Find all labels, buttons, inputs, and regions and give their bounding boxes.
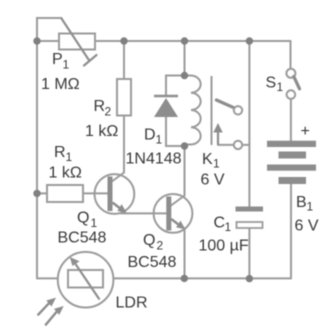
resistor R2	[117, 79, 131, 116]
label Q1	[77, 210, 98, 231]
potentiometer P1	[59, 19, 97, 66]
transistor Q1	[95, 174, 135, 214]
label R2	[94, 98, 112, 119]
light arrow 1	[38, 298, 56, 316]
svg-text:Q: Q	[143, 232, 155, 249]
node D1/coil top	[181, 72, 188, 79]
light arrow 2	[45, 306, 64, 325]
svg-text:1 kΩ: 1 kΩ	[49, 165, 82, 182]
transistor Q2	[154, 194, 193, 233]
label Q2	[143, 232, 164, 253]
switch S1	[286, 69, 299, 99]
wire R2 bottom to Q1 collector	[113, 116, 125, 182]
node R1 rail	[33, 190, 40, 197]
diode D1	[154, 96, 178, 117]
label K1	[202, 151, 220, 171]
relay K1 coil	[185, 76, 201, 145]
svg-text:C: C	[214, 215, 226, 232]
wire C1 column bottom	[248, 228, 250, 278]
svg-text:1: 1	[225, 220, 232, 234]
wire S1 top	[290, 41, 292, 69]
relay K1 lever	[216, 100, 233, 108]
svg-text:P: P	[52, 51, 63, 68]
label D1	[144, 127, 163, 147]
label S1	[266, 75, 284, 95]
svg-text:1 kΩ: 1 kΩ	[85, 123, 118, 140]
svg-text:LDR: LDR	[116, 295, 148, 312]
relay K1 core	[211, 76, 213, 145]
battery B1	[267, 141, 316, 184]
svg-text:1 MΩ: 1 MΩ	[41, 76, 80, 93]
wire R2 top	[123, 41, 125, 79]
relay K1 actuation arrow	[213, 123, 222, 145]
svg-text:2: 2	[157, 239, 164, 253]
wire top rail	[37, 40, 291, 42]
svg-text:S: S	[266, 75, 277, 92]
relay K1 top contact	[234, 106, 242, 114]
svg-text:1: 1	[156, 133, 163, 147]
label C1	[214, 215, 232, 235]
capacitor C1	[236, 207, 264, 229]
svg-text:2: 2	[105, 105, 112, 119]
wire R1 right to Q1 base	[83, 192, 108, 194]
svg-text:6 V: 6 V	[295, 218, 319, 235]
svg-text:1: 1	[307, 200, 314, 214]
svg-text:B: B	[296, 194, 307, 211]
label B1	[296, 194, 314, 214]
svg-text:BC548: BC548	[128, 254, 177, 271]
node D1/coil bottom	[181, 142, 188, 149]
wire K1 column top	[184, 41, 186, 76]
wire left rail	[36, 41, 38, 278]
label R1	[54, 144, 73, 164]
svg-text:BC548: BC548	[58, 230, 107, 247]
svg-text:+: +	[301, 123, 310, 140]
svg-text:K: K	[202, 151, 213, 168]
wire K1 contact to C1 column	[218, 144, 249, 146]
svg-text:1: 1	[91, 216, 98, 230]
svg-text:Q: Q	[77, 210, 89, 227]
wire K1 bottom to Q2 collector	[171, 146, 185, 206]
node K1 top rail	[181, 37, 188, 44]
label P1	[52, 51, 70, 72]
svg-text:1N4148: 1N4148	[126, 151, 182, 168]
node C1 top rail	[246, 37, 253, 44]
svg-text:1: 1	[63, 58, 70, 72]
svg-text:1: 1	[277, 80, 284, 94]
node R2 top	[120, 37, 127, 44]
resistor R1	[47, 185, 83, 202]
svg-text:D: D	[144, 127, 156, 144]
svg-text:1: 1	[213, 157, 220, 171]
wire D1 anode stub	[166, 117, 185, 147]
svg-text:1: 1	[66, 150, 73, 164]
svg-text:100 µF: 100 µF	[199, 238, 249, 255]
wire P1 wiper to left rail	[37, 18, 62, 40]
wire C1 column top	[248, 41, 250, 207]
LDR	[58, 252, 114, 308]
node C1 bottom	[246, 275, 253, 282]
svg-text:R: R	[94, 98, 106, 115]
relay K1 bottom contact	[234, 141, 242, 149]
node P1/rail	[33, 37, 40, 44]
svg-text:6 V: 6 V	[201, 172, 225, 189]
wire D1 cathode stub	[166, 76, 185, 97]
svg-text:R: R	[54, 144, 66, 161]
wire bottom rail	[37, 277, 291, 279]
wire Q2 emitter down	[184, 230, 186, 278]
wire R1 left	[37, 192, 47, 194]
wire S1 to battery	[290, 99, 292, 141]
wire battery bottom	[290, 184, 292, 278]
wire Q1 emitter to Q2 base	[121, 212, 166, 214]
node Q2 emitter bottom	[181, 275, 188, 282]
